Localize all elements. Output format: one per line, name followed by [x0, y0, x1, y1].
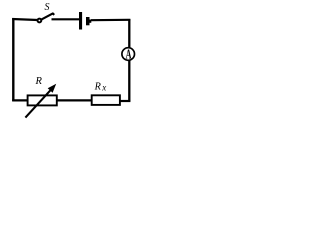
ammeter A circle: [122, 48, 135, 61]
svg-text:A: A: [126, 48, 132, 63]
battery long plate: [79, 12, 82, 30]
svg-text:S: S: [45, 2, 50, 13]
svg-text:R: R: [35, 76, 43, 87]
battery short plate nub: [90, 20, 92, 23]
wire left vertical: [12, 18, 14, 101]
svg-text:Rx: Rx: [94, 81, 107, 92]
wire right vertical: [128, 19, 130, 102]
wire bottom-right horizontal: [120, 100, 131, 102]
resistor Rx body: [92, 95, 120, 105]
battery short plate: [86, 17, 90, 25]
wire bottom-left horizontal: [12, 99, 28, 101]
rheostat arrow head: [48, 84, 57, 93]
switch S hinge: [38, 19, 42, 23]
wire middle bottom: [57, 99, 93, 101]
wire switch to battery: [52, 18, 80, 20]
switch S blade: [41, 13, 54, 19]
rheostat R body: [28, 95, 57, 105]
wire top-left horizontal: [12, 19, 37, 20]
rheostat arrow shaft: [25, 90, 50, 117]
wire battery to top-right corner: [91, 19, 130, 22]
